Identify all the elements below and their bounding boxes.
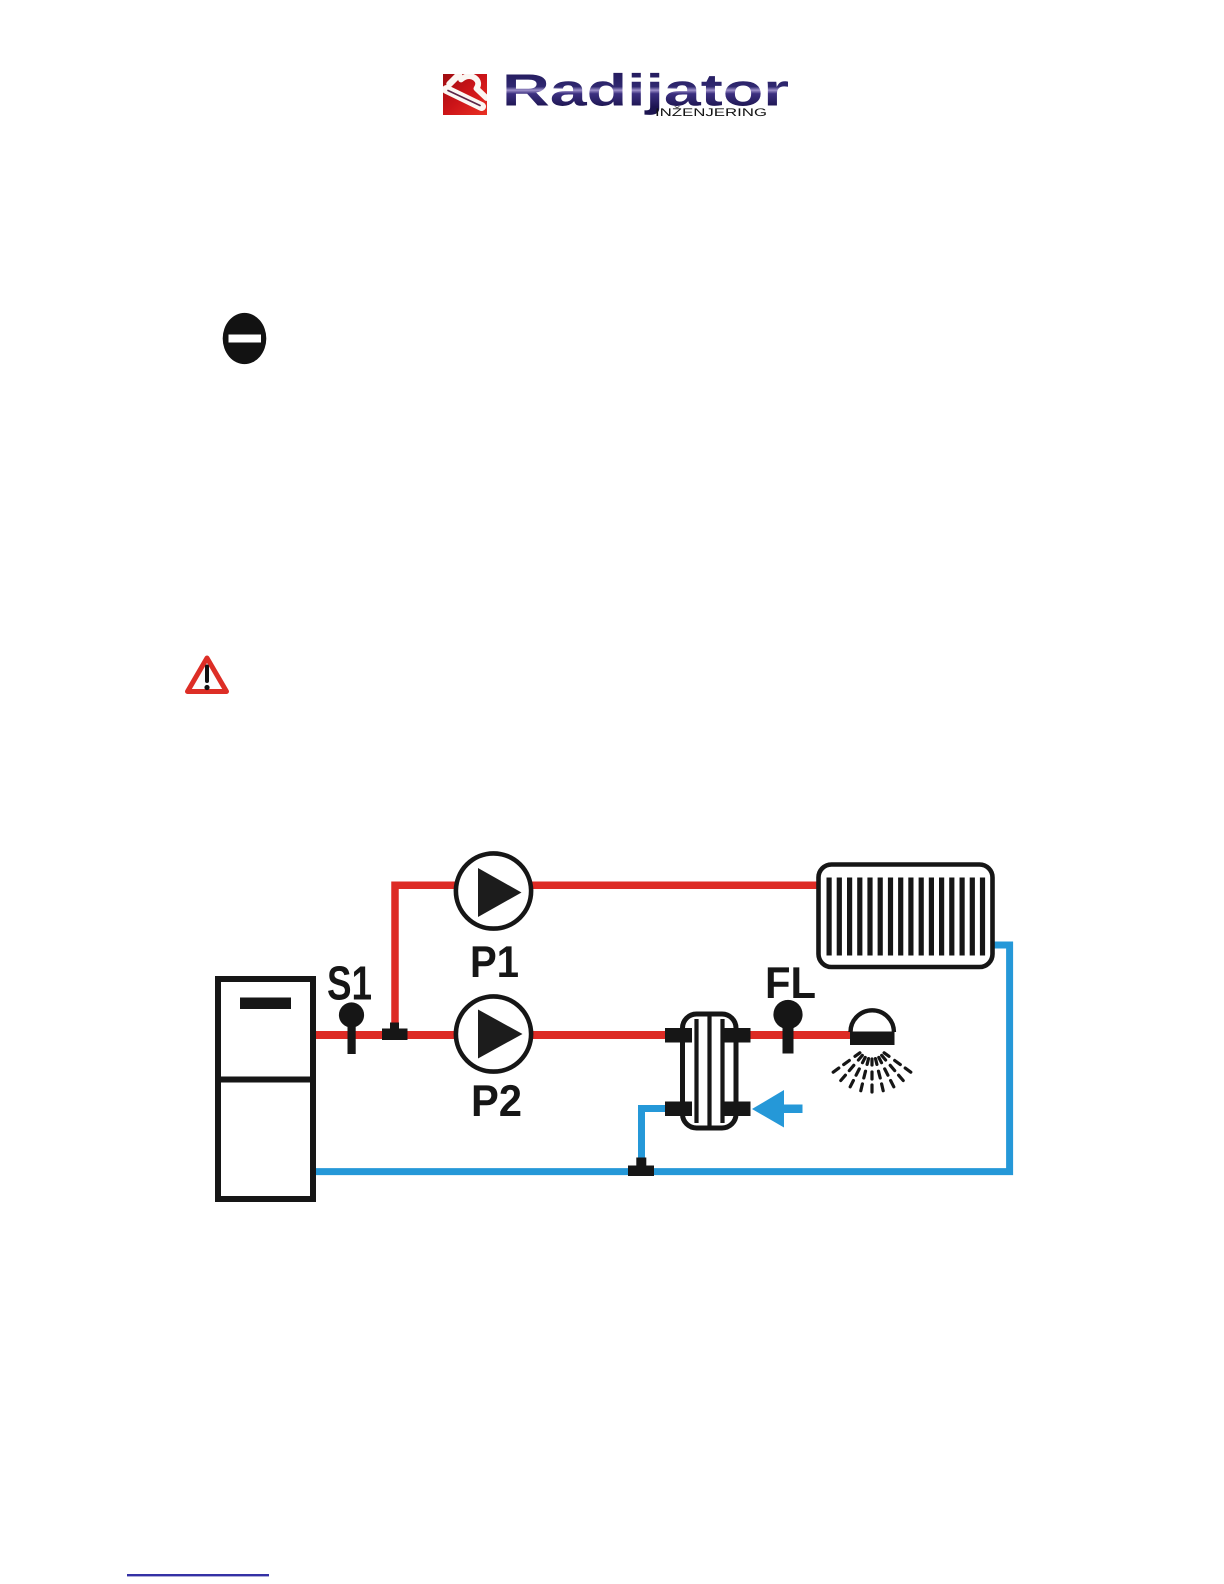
wire: blue branch heat exchanger to return [642, 1109, 667, 1172]
label FL [768, 967, 815, 998]
fuel icon (black disc with white bar) [223, 313, 267, 364]
wire: blue return radiator to boiler [316, 945, 1010, 1172]
label P1 [473, 946, 518, 977]
heat exchanger stubs [665, 1028, 751, 1116]
label P2 [474, 1085, 521, 1116]
wire: red supply boiler to heat exchanger and shower [316, 1031, 856, 1039]
wire: red riser and top supply to radiator [395, 885, 818, 1030]
pump P2 [456, 996, 531, 1071]
tee junction on blue pipe [628, 1158, 654, 1177]
footer rule [127, 1574, 269, 1576]
blue flow arrow [752, 1090, 803, 1128]
label S1 [328, 966, 371, 1000]
pump P1 [456, 853, 531, 928]
radiator [819, 865, 993, 968]
sensor S1 [339, 1002, 364, 1054]
warning triangle [188, 658, 227, 692]
logo red square [443, 74, 487, 115]
heat exchanger body [683, 1014, 737, 1128]
boiler [215, 979, 316, 1199]
shower head [850, 1010, 895, 1045]
logo subtitle INZENJERING [657, 106, 766, 116]
shower spray [833, 1053, 911, 1092]
logo wordmark Radijator [506, 73, 788, 115]
tee junction on red pipe [382, 1023, 408, 1041]
flow switch FL [773, 1000, 802, 1054]
